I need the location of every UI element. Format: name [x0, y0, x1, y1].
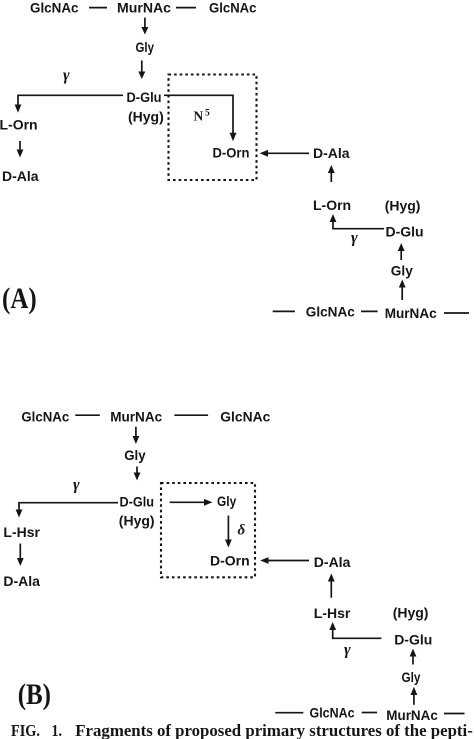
svg-text:γ: γ: [351, 230, 358, 247]
svg-text:MurNAc: MurNAc: [110, 409, 162, 425]
wire gamma branch A-right: [333, 222, 384, 229]
dotted box B: [161, 483, 255, 577]
dotted box A: [169, 75, 257, 181]
svg-text:(B): (B): [18, 678, 51, 710]
arrow Gly to D-Glu B-right: [410, 649, 417, 665]
svg-text:FIG.: FIG.: [11, 721, 40, 739]
svg-text:GlcNAc: GlcNAc: [220, 409, 270, 425]
wire bond GlcNAc-MurNAc B-top: [75, 414, 100, 416]
svg-text:Gly: Gly: [136, 39, 155, 55]
svg-text:(A): (A): [2, 282, 37, 314]
arrow Gly to D-Glu B: [134, 467, 141, 481]
svg-text:D-Ala: D-Ala: [314, 554, 351, 570]
svg-text:MurNAc: MurNAc: [117, 0, 171, 16]
arrow Gly to D-Glu A: [138, 61, 145, 80]
arrow L-Hsr to D-Ala B-right: [328, 574, 335, 598]
wire bond MurNAc-GlcNAc B-top: [174, 414, 208, 416]
arrow Gly to D-Orn B: [225, 516, 232, 548]
wire bond left A-bottom: [273, 310, 295, 312]
svg-text:GlcNAc: GlcNAc: [21, 409, 69, 425]
arrowhead to L-Orn A: [15, 105, 22, 113]
svg-text:N: N: [194, 109, 204, 124]
svg-text:(Hyg): (Hyg): [128, 109, 164, 125]
wire bond GlcNAc-MurNAc A-bottom: [361, 310, 378, 312]
arrowhead to L-Hsr B: [16, 510, 23, 518]
wire bond GlcNAc-MurNAc B-bottom: [362, 712, 377, 714]
svg-text:5: 5: [205, 109, 210, 119]
svg-text:γ: γ: [73, 477, 80, 494]
svg-text:GlcNAc: GlcNAc: [310, 705, 355, 721]
caption FIG. 1.: [11, 721, 473, 739]
svg-text:D-Glu: D-Glu: [120, 494, 155, 510]
svg-text:L-Hsr: L-Hsr: [3, 524, 40, 540]
label N5 amide A: [194, 109, 211, 124]
svg-text:γ: γ: [63, 67, 70, 84]
svg-text:γ: γ: [344, 642, 351, 659]
svg-text:GlcNAc: GlcNAc: [209, 0, 257, 16]
svg-text:D-Orn: D-Orn: [213, 145, 250, 161]
arrow L-Hsr to D-Ala B: [17, 544, 24, 566]
svg-text:L-Orn: L-Orn: [313, 197, 351, 213]
svg-text:D-Glu: D-Glu: [386, 224, 424, 240]
svg-text:MurNAc: MurNAc: [385, 305, 437, 321]
svg-text:Gly: Gly: [217, 493, 236, 509]
svg-text:Gly: Gly: [402, 669, 421, 685]
wire bond MurNAc-GlcNAc A-top: [176, 7, 196, 9]
svg-text:L-Hsr: L-Hsr: [314, 605, 351, 621]
svg-text:D-Glu: D-Glu: [127, 89, 162, 105]
svg-text:D-Ala: D-Ala: [3, 573, 40, 589]
arrow MurNAc to Gly A-right: [399, 280, 406, 301]
arrow D-Ala to D-Orn A: [260, 150, 309, 157]
wire gamma branch B-right: [333, 630, 382, 639]
svg-text:D-Orn: D-Orn: [210, 553, 250, 569]
svg-text:(Hyg): (Hyg): [119, 513, 155, 529]
svg-text:Fragments of proposed primary: Fragments of proposed primary structures…: [75, 721, 473, 739]
arrow MurNAc to Gly B-right: [411, 687, 418, 705]
arrow MurNAc to Gly A: [141, 18, 148, 35]
arrowhead to D-Orn in box A: [230, 133, 237, 142]
wire gamma branch B-left: [19, 503, 118, 510]
arrowhead to L-Orn A-right: [330, 214, 337, 222]
svg-text:GlcNAc: GlcNAc: [30, 0, 79, 16]
arrow MurNAc to Gly B: [133, 427, 140, 444]
arrow L-Orn to D-Ala A-right: [328, 165, 335, 182]
wire bond right A-bottom: [444, 312, 469, 314]
svg-text:1.: 1.: [52, 721, 63, 739]
wire bond left B-bottom: [275, 712, 303, 714]
arrow Gly to D-Glu A-right: [398, 243, 405, 260]
wire bond GlcNAc-MurNAc A-top: [89, 7, 107, 9]
svg-text:GlcNAc: GlcNAc: [306, 304, 355, 320]
svg-text:(Hyg): (Hyg): [385, 198, 421, 214]
arrow D-Glu to Gly B: [170, 499, 213, 506]
svg-text:(Hyg): (Hyg): [393, 605, 429, 621]
arrowhead to L-Hsr B-right: [329, 622, 336, 630]
svg-text:Gly: Gly: [391, 263, 413, 279]
svg-text:D-Ala: D-Ala: [313, 145, 350, 161]
arrow L-Orn to D-Ala A: [17, 141, 24, 158]
arrow D-Ala to D-Orn B: [260, 557, 309, 564]
svg-text:δ: δ: [238, 523, 246, 539]
wire gamma branch A-left: [18, 95, 123, 105]
wire bond right B-bottom: [444, 713, 465, 715]
svg-text:Gly: Gly: [124, 447, 146, 463]
svg-text:D-Ala: D-Ala: [2, 168, 39, 184]
svg-text:L-Orn: L-Orn: [0, 117, 38, 133]
wire D-Glu into box A: [164, 95, 233, 133]
svg-text:D-Glu: D-Glu: [394, 632, 432, 648]
